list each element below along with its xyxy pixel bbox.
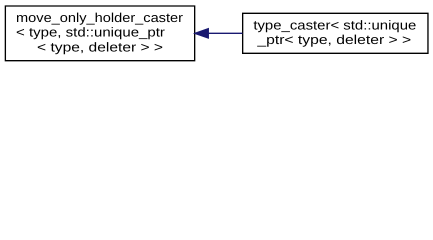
svg-text:type_caster< std::unique: type_caster< std::unique: [253, 17, 416, 32]
svg-text:move_only_holder_caster: move_only_holder_caster: [16, 10, 184, 25]
svg-text:_ptr< type, deleter > >: _ptr< type, deleter > >: [256, 32, 411, 47]
svg-text:< type, deleter > >: < type, deleter > >: [37, 39, 163, 54]
svg-text:< type, std::unique_ptr: < type, std::unique_ptr: [16, 25, 166, 40]
